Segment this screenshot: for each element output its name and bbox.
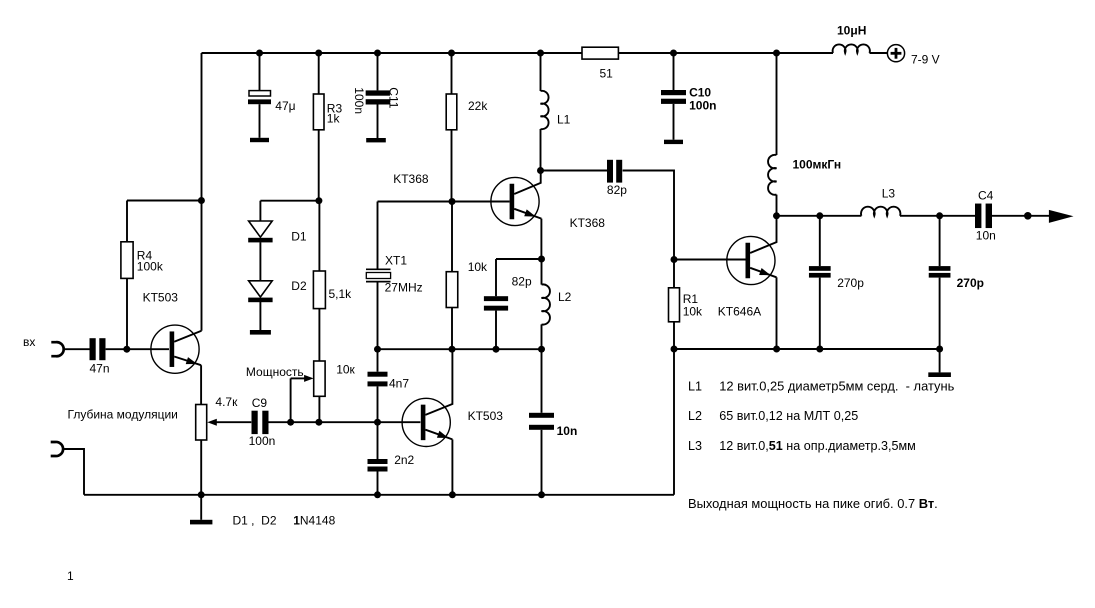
wire D1 anode lead xyxy=(259,201,261,221)
svg-text:82p: 82p xyxy=(607,183,627,197)
node top rail / 47u xyxy=(256,50,263,57)
crystal XT1 body xyxy=(366,273,390,279)
capacitor C4 xyxy=(975,204,981,229)
ground (C11) xyxy=(366,138,386,142)
node top rail / R3 xyxy=(315,50,322,57)
wire choke bottom lead xyxy=(776,195,778,216)
svg-text:C9: C9 xyxy=(252,396,268,410)
wire R1 top lead xyxy=(673,260,675,288)
svg-text:KT646A: KT646A xyxy=(718,305,761,319)
pot2 wiper arrow (points right) xyxy=(304,375,314,382)
capacitor 47u plate+ xyxy=(249,91,271,96)
node bottom rail / Q3 emitter xyxy=(449,491,456,498)
crystal XT1 bottom plate xyxy=(366,281,391,283)
node pot / bottom rail xyxy=(198,491,205,498)
svg-text:100n: 100n xyxy=(249,434,276,448)
capacitor 270p (first) xyxy=(809,266,831,271)
svg-text:C10: C10 xyxy=(689,86,711,100)
svg-text:Выходная мощность на пике огиб: Выходная мощность на пике огиб. 0.7 Вт. xyxy=(688,496,938,511)
wire L1 bottom lead xyxy=(540,129,542,171)
wire 270p-1 bottom lead xyxy=(819,278,821,349)
inductor 100mkGn xyxy=(768,155,776,195)
node bottom rail / 10n xyxy=(538,491,545,498)
wire 10k bottom lead xyxy=(451,308,453,350)
wire Q4 emitter xyxy=(750,268,776,278)
svg-text:4n7: 4n7 xyxy=(389,376,409,390)
wire pot bottom xyxy=(200,440,202,495)
capacitor C11 xyxy=(366,90,390,95)
wire 82p2 bottom lead xyxy=(495,311,497,350)
resistor R1 10k xyxy=(669,288,680,322)
node top rail / choke xyxy=(773,50,780,57)
wire 82p2-R1 node to base xyxy=(674,259,746,261)
transistor Q1 KT503 xyxy=(151,325,199,373)
transistor Q4 KT646A xyxy=(727,236,775,284)
wire 47u top lead xyxy=(259,53,261,91)
node mid rail right / R1 xyxy=(671,346,678,353)
wire Q3 collector xyxy=(425,349,452,415)
svg-text:L1: L1 xyxy=(688,380,702,394)
wire 270p-1 top lead xyxy=(819,216,821,266)
pot wiper arrow (points left) xyxy=(207,419,217,426)
svg-text:10к: 10к xyxy=(336,363,355,377)
svg-text:Мощность: Мощность xyxy=(246,365,304,379)
node top rail / 22k xyxy=(448,50,455,57)
capacitor 10n (mid) xyxy=(529,413,554,418)
svg-text:100n: 100n xyxy=(352,87,366,114)
wire Q1 collector xyxy=(174,331,201,342)
capacitor 2n2 xyxy=(368,459,388,464)
wire mid rail left segment xyxy=(378,348,542,350)
wire 2n2 top lead xyxy=(377,422,379,459)
resistor 51 (horizontal body) xyxy=(582,47,618,59)
node wiper2 on line xyxy=(287,419,294,426)
svg-text:L2: L2 xyxy=(558,290,572,304)
wire R4 upper lead xyxy=(126,201,128,243)
svg-text:5,1k: 5,1k xyxy=(329,287,353,301)
svg-text:82p: 82p xyxy=(512,275,532,289)
node output / 270p first xyxy=(816,212,823,219)
ground (C10) xyxy=(664,140,683,144)
capacitor 82p (coupling) xyxy=(607,160,613,183)
wire pot2 wiper xyxy=(291,377,305,379)
svg-text:47μ: 47μ xyxy=(275,99,295,113)
node mid rail right / 270p-2 xyxy=(936,346,943,353)
capacitor 82p (emitter) xyxy=(484,296,508,301)
ground stem (right) xyxy=(939,349,941,372)
wire bottom rail xyxy=(84,494,674,496)
diode D1 xyxy=(249,221,273,237)
wire Q2 emitter lead xyxy=(540,219,542,259)
capacitor 47u plate- xyxy=(248,99,271,104)
wire output line seg2 xyxy=(900,215,975,217)
wire 22k bottom lead xyxy=(451,130,453,202)
node output / choke / Q4 collector xyxy=(773,212,780,219)
svg-text:51: 51 xyxy=(600,67,614,81)
svg-text:27MHz: 27MHz xyxy=(385,281,423,295)
ground (bottom left) xyxy=(190,520,212,525)
ground (right) xyxy=(928,372,951,377)
node bottom rail / 2n2 xyxy=(374,491,381,498)
node mid rail right / Q4 emitter xyxy=(773,346,780,353)
power terminal +7-9V xyxy=(887,45,904,62)
svg-text:KT368: KT368 xyxy=(393,172,429,186)
node mid rail / 82p2 xyxy=(493,346,500,353)
wire left vertical (rail to Q1 collector) xyxy=(201,53,203,331)
wire rail to supply terminal xyxy=(870,52,888,54)
node output after C4 xyxy=(1024,212,1032,220)
inductor L3 xyxy=(861,207,900,216)
svg-text:D2: D2 xyxy=(291,279,307,293)
wire C11 top lead xyxy=(377,53,379,90)
wire 22k top lead xyxy=(451,53,453,94)
svg-text:100n: 100n xyxy=(689,99,716,113)
svg-text:KT368: KT368 xyxy=(570,216,606,230)
wire output line seg1 xyxy=(777,215,862,217)
wire 5,1k to pot xyxy=(318,309,320,361)
wire C10 top lead xyxy=(673,53,675,90)
svg-text:L3: L3 xyxy=(688,439,702,453)
input connector xyxy=(51,342,63,356)
node Q2 emitter / L2 xyxy=(538,256,545,263)
wire XT1 bottom lead xyxy=(377,281,379,349)
wire pot2 wiper drop xyxy=(290,378,292,422)
wire 10n top lead xyxy=(541,349,543,413)
ground (diodes) xyxy=(250,330,271,335)
potentiometer body (Glubina modulyacii) xyxy=(196,405,207,441)
wire 82p left lead xyxy=(541,170,608,172)
node base Q1 / R4 xyxy=(123,346,130,353)
node pot2 bottom on line xyxy=(315,419,322,426)
svg-text:270p: 270p xyxy=(957,276,984,290)
node top rail / C10 xyxy=(670,50,677,57)
svg-text:C11: C11 xyxy=(387,87,401,108)
node R1 / Q4 base xyxy=(671,256,678,263)
svg-text:10μH: 10μH xyxy=(837,24,866,38)
node R4 branch xyxy=(198,197,205,204)
wire L1 top lead xyxy=(540,53,542,91)
wire C10 to ground xyxy=(673,104,675,140)
wire XT1 top lead xyxy=(377,202,379,270)
wire output line seg3 xyxy=(992,215,1049,217)
inductor L2 xyxy=(542,284,550,324)
svg-text:1k: 1k xyxy=(327,112,341,126)
node base line / 22k-10k xyxy=(449,198,456,205)
wire Q3 emitter xyxy=(425,430,452,440)
svg-text:L2: L2 xyxy=(688,409,702,423)
ground (47u) xyxy=(250,138,269,142)
svg-text:10k: 10k xyxy=(683,305,703,319)
wire D1-D2 xyxy=(259,242,261,281)
capacitor C9 xyxy=(252,411,258,434)
svg-text:KT503: KT503 xyxy=(468,409,504,423)
wire 82p2 top lead xyxy=(495,259,497,296)
resistor R4 100k xyxy=(121,242,133,279)
node Q2 collector / L1 / 82p xyxy=(537,167,544,174)
wire top power rail left segment xyxy=(202,52,583,54)
wire 270p-2 bottom lead xyxy=(939,278,941,349)
node R3 / diode branch xyxy=(315,197,322,204)
capacitor 270p (second) xyxy=(929,266,951,271)
svg-text:D1: D1 xyxy=(291,230,307,244)
wire 10k top lead xyxy=(451,202,453,272)
svg-text:1: 1 xyxy=(67,569,74,583)
wire R4 lower lead xyxy=(126,278,128,349)
wire diode branch top xyxy=(260,200,318,202)
wire Q1 emitter xyxy=(174,357,201,366)
lower connector xyxy=(51,442,63,456)
wire R3 bottom lead xyxy=(318,130,320,201)
inductor 10uH xyxy=(833,44,870,53)
svg-text:100мкГн: 100мкГн xyxy=(793,158,842,172)
wire Q3 emitter lead xyxy=(451,439,453,494)
svg-text:22k: 22k xyxy=(468,99,488,113)
diode D2 xyxy=(249,281,273,297)
resistor 22k xyxy=(446,94,457,130)
wire Q2 collector xyxy=(514,171,541,195)
svg-text:7-9 V: 7-9 V xyxy=(911,53,940,67)
svg-text:C4: C4 xyxy=(978,189,994,203)
wire Q4 emitter lead xyxy=(776,277,778,349)
resistor 10k (mid) xyxy=(446,272,458,308)
svg-text:2n2: 2n2 xyxy=(394,453,414,467)
wire 82p right lead xyxy=(623,171,674,260)
svg-text:D1 , D2 1N4148: D1 , D2 1N4148 xyxy=(233,514,336,528)
wire bottom rail riser (to R1 node) xyxy=(673,349,675,495)
svg-text:Глубина модуляции: Глубина модуляции xyxy=(68,408,178,422)
potentiometer 10k (Moshchnost) xyxy=(314,361,325,396)
wire choke top lead xyxy=(776,53,778,155)
resistor 5,1k xyxy=(313,271,325,309)
wire L2 bottom lead xyxy=(541,324,543,349)
wire 270p-2 top lead xyxy=(939,216,941,266)
wire pot2 bottom lead xyxy=(318,396,320,422)
capacitor 4n7 xyxy=(368,372,388,377)
node 4n7/2n2 junction xyxy=(374,419,381,426)
svg-text:10n: 10n xyxy=(976,229,996,243)
node mid rail / 10k xyxy=(449,346,456,353)
wire D2 to ground xyxy=(259,302,261,330)
wire 47n to Q1 base xyxy=(106,348,169,350)
svg-text:10k: 10k xyxy=(468,260,488,274)
wire Q2 emitter xyxy=(514,209,541,219)
wire L2 top lead xyxy=(541,259,543,285)
wire R1 bottom lead xyxy=(673,322,675,349)
node mid rail right / 270p-1 xyxy=(816,346,823,353)
svg-text:100k: 100k xyxy=(137,260,164,274)
wire 2n2 bottom lead xyxy=(377,472,379,495)
wire mid rail right segment xyxy=(674,348,940,350)
svg-text:12 вит.0,25 диаметр5мм серд.: 12 вит.0,25 диаметр5мм серд. - латунь xyxy=(719,379,954,394)
svg-text:65 вит.0,12 на МЛТ 0,25: 65 вит.0,12 на МЛТ 0,25 xyxy=(719,409,858,423)
wire 4n7 bottom lead xyxy=(377,386,379,422)
wire R4 top branch xyxy=(127,200,202,202)
wire R3 node to 5,1k xyxy=(318,201,320,271)
wire 47u to ground xyxy=(259,104,261,138)
node top rail / C11 xyxy=(374,50,381,57)
svg-text:KT503: KT503 xyxy=(143,291,179,305)
svg-text:L3: L3 xyxy=(882,187,896,201)
svg-text:270p: 270p xyxy=(837,276,864,290)
wire Q1 emitter lead xyxy=(200,365,202,404)
resistor R3 1k xyxy=(313,94,324,130)
svg-text:XT1: XT1 xyxy=(385,254,407,268)
wire base line (XT1 to Q2) xyxy=(378,201,510,203)
wire input to 47n xyxy=(63,348,90,350)
wire 4n7 top lead xyxy=(377,349,379,372)
crystal XT1 top plate xyxy=(366,268,391,270)
wire Q4 collector xyxy=(750,216,776,253)
output arrow xyxy=(1049,210,1074,223)
svg-text:4.7к: 4.7к xyxy=(215,395,238,409)
svg-text:12 вит.0,51 на опр.диаметр.3,5: 12 вит.0,51 на опр.диаметр.3,5мм xyxy=(719,439,916,453)
wire C11 to ground xyxy=(377,105,379,139)
transistor Q3 KT503 xyxy=(402,398,450,446)
wire 10n bottom lead xyxy=(541,430,543,495)
wire C9 to Q3 base xyxy=(269,421,421,423)
node output / 270p second xyxy=(936,212,943,219)
inductor L1 xyxy=(541,91,549,129)
transistor Q2 KT368 xyxy=(491,177,539,225)
wire emitter node horizontal xyxy=(496,258,542,260)
svg-text:вх: вх xyxy=(23,335,35,349)
svg-text:10n: 10n xyxy=(557,424,578,438)
wire wiper to C9 xyxy=(216,421,252,423)
capacitor C10 xyxy=(661,90,686,95)
node mid rail / L2-10n xyxy=(538,346,545,353)
node mid rail / XT1 xyxy=(374,346,381,353)
wire top power rail middle segment xyxy=(618,52,833,54)
node top rail / L1 xyxy=(537,50,544,57)
svg-text:L1: L1 xyxy=(557,113,571,127)
ground stem below pot xyxy=(200,495,202,520)
capacitor 47n xyxy=(90,338,96,360)
wire lower connector xyxy=(62,449,84,495)
svg-text:47n: 47n xyxy=(90,362,110,376)
wire R3 top lead xyxy=(318,53,320,94)
